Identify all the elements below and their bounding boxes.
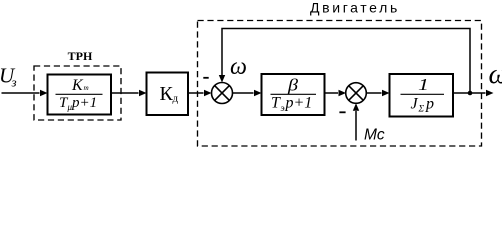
node omega output label	[489, 59, 502, 90]
node Uz input label	[0, 64, 17, 90]
summing junction 1 (circle with X)	[212, 83, 233, 104]
svg-text:T: T	[271, 95, 281, 112]
svg-text:Σ: Σ	[418, 105, 425, 115]
svg-text:з: з	[11, 75, 17, 90]
dashed box TRN	[34, 66, 121, 120]
svg-text:J: J	[411, 96, 419, 113]
svg-text:p: p	[425, 96, 434, 113]
block U1 Kt/(Tmu p+1) thyristor regulator	[48, 75, 112, 115]
svg-text:p+1: p+1	[71, 95, 97, 111]
wire output omega (with junction dot)	[453, 90, 494, 96]
svg-text:ω: ω	[489, 59, 502, 90]
svg-text:т: т	[84, 84, 89, 92]
label Mc (Мс)	[364, 127, 385, 144]
wire feedback omega (from output junction up, across, down into summer 1)	[219, 29, 473, 96]
summing junction 2 (circle with X)	[346, 83, 367, 104]
svg-text:ω: ω	[230, 54, 247, 80]
svg-text:β: β	[287, 76, 299, 95]
node omega feedback label	[230, 54, 247, 80]
svg-text:К: К	[160, 83, 174, 105]
block U4 1/(J sigma p) integrator	[390, 74, 454, 117]
label TPH (ТРН)	[68, 49, 93, 63]
dashed box motor (Двигатель)	[198, 21, 482, 147]
wire TRN block to Kd block	[112, 90, 147, 96]
svg-text:p+1: p+1	[285, 95, 313, 112]
svg-text:K: K	[71, 77, 84, 94]
svg-text:Двигатель: Двигатель	[310, 0, 400, 16]
minus sign at summing junction 2	[339, 111, 345, 113]
svg-text:Мс: Мс	[364, 127, 385, 144]
svg-text:э: э	[281, 104, 285, 114]
wire input Uz to TRN block	[2, 90, 48, 96]
wire Kd to summing junction 1	[189, 90, 212, 96]
label Dvigatel (Двигатель)	[310, 0, 400, 16]
svg-text:1: 1	[418, 75, 429, 94]
wire summer 1 to beta block	[233, 90, 262, 96]
svg-text:д: д	[173, 93, 179, 105]
wire summer 2 to 1/Jp block	[366, 90, 389, 96]
svg-text:ТРН: ТРН	[68, 49, 93, 63]
block U3 beta/(Te p+1)	[262, 74, 325, 115]
minus sign at summing junction 1	[203, 77, 208, 79]
wire Mc load torque input	[353, 103, 359, 140]
wire beta block to summing junction 2	[325, 90, 347, 96]
block U2 Kd (К_д)	[147, 73, 189, 116]
